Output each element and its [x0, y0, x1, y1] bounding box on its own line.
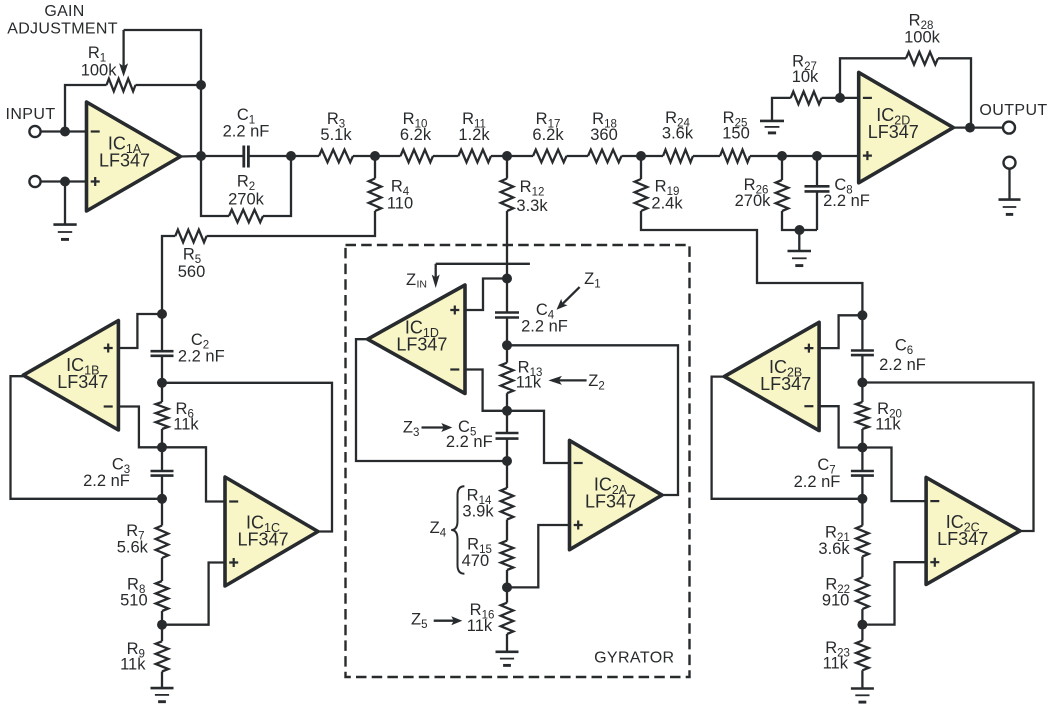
svg-text:10k: 10k: [792, 68, 819, 86]
svg-text:2.2 nF: 2.2 nF: [794, 473, 841, 491]
svg-text:470: 470: [462, 552, 490, 570]
svg-text:LF347: LF347: [868, 122, 919, 142]
svg-text:GAIN: GAIN: [44, 3, 84, 20]
svg-text:LF347: LF347: [396, 335, 447, 355]
svg-text:3.9k: 3.9k: [462, 503, 494, 521]
svg-text:11k: 11k: [875, 416, 901, 434]
svg-text:3.6k: 3.6k: [662, 125, 694, 143]
svg-text:2.2 nF: 2.2 nF: [879, 356, 926, 374]
svg-text:OUTPUT: OUTPUT: [979, 102, 1047, 119]
svg-text:2.2 nF: 2.2 nF: [178, 348, 225, 366]
svg-text:360: 360: [590, 126, 618, 144]
svg-text:11k: 11k: [823, 655, 849, 673]
svg-text:LF347: LF347: [99, 151, 150, 171]
svg-text:11k: 11k: [120, 656, 146, 674]
svg-text:2.2 nF: 2.2 nF: [223, 123, 270, 141]
svg-text:2.2 nF: 2.2 nF: [823, 192, 870, 210]
svg-text:100k: 100k: [904, 29, 941, 47]
svg-text:910: 910: [822, 592, 850, 610]
svg-text:2.4k: 2.4k: [651, 195, 683, 213]
svg-text:2.2 nF: 2.2 nF: [521, 318, 568, 336]
svg-text:LF347: LF347: [237, 530, 288, 550]
svg-text:IN: IN: [417, 279, 428, 291]
svg-text:270k: 270k: [228, 191, 265, 209]
svg-text:ADJUSTMENT: ADJUSTMENT: [7, 21, 118, 38]
svg-text:INPUT: INPUT: [6, 106, 56, 123]
svg-text:3.6k: 3.6k: [818, 540, 850, 558]
svg-text:510: 510: [120, 592, 148, 610]
svg-text:6.2k: 6.2k: [400, 126, 432, 144]
svg-text:560: 560: [178, 263, 206, 281]
svg-text:1.2k: 1.2k: [458, 126, 490, 144]
svg-text:LF347: LF347: [57, 372, 108, 392]
svg-text:270k: 270k: [735, 192, 772, 210]
svg-text:100k: 100k: [81, 62, 118, 80]
svg-text:11k: 11k: [173, 416, 199, 434]
svg-text:5.6k: 5.6k: [117, 539, 149, 557]
svg-text:LF347: LF347: [937, 529, 988, 549]
svg-text:LF347: LF347: [585, 492, 636, 512]
svg-text:Z: Z: [406, 271, 416, 289]
svg-text:2.2 nF: 2.2 nF: [446, 433, 493, 451]
svg-text:LF347: LF347: [760, 374, 811, 394]
svg-text:6.2k: 6.2k: [532, 126, 564, 144]
svg-text:5.1k: 5.1k: [320, 126, 352, 144]
svg-text:110: 110: [387, 195, 413, 213]
svg-text:11k: 11k: [467, 617, 493, 635]
svg-text:150: 150: [722, 125, 750, 143]
svg-text:3.3k: 3.3k: [516, 197, 548, 215]
svg-text:GYRATOR: GYRATOR: [594, 650, 674, 667]
svg-text:11k: 11k: [516, 374, 542, 392]
svg-text:2.2 nF: 2.2 nF: [83, 472, 130, 490]
